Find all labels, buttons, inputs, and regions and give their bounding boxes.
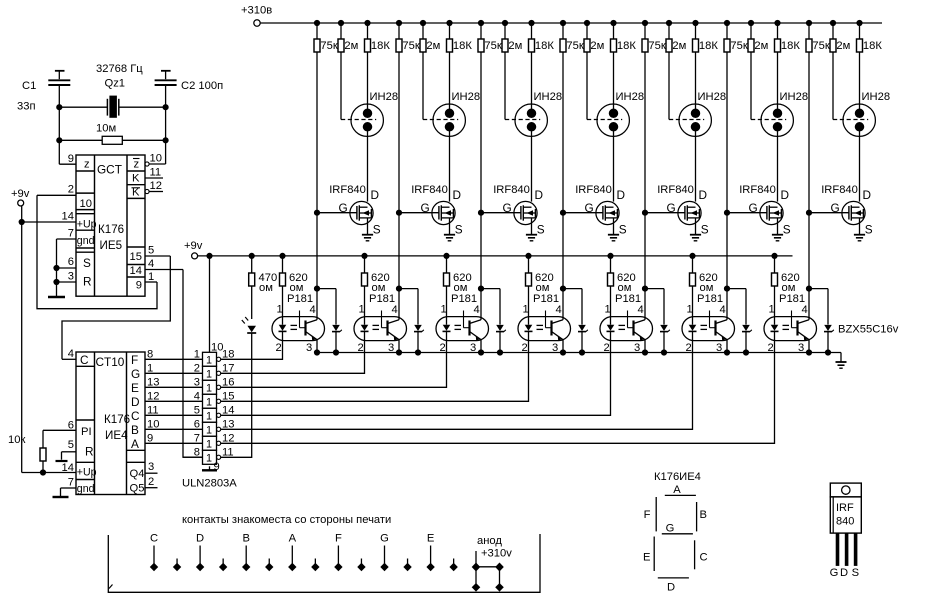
junction 18К 2 — [447, 20, 452, 25]
U3 output pin 11 bubble — [217, 455, 221, 459]
wire gate node to opto pin 4 3 — [480, 213, 482, 289]
junction gate branch 6 — [724, 286, 729, 291]
wire MOSFET source to ground 1 — [367, 218, 369, 235]
svg-text:12: 12 — [147, 390, 159, 402]
wire gate node to opto pin 4 7 — [808, 213, 810, 289]
protection diode branch 5 — [645, 288, 664, 290]
protection diode branch 3 — [481, 288, 500, 290]
resistor 2м #1 — [340, 23, 342, 39]
svg-text:3: 3 — [148, 461, 154, 473]
svg-text:К176: К176 — [98, 223, 124, 236]
svg-text:D: D — [863, 188, 872, 202]
U3 output pin 12 bubble — [217, 441, 221, 445]
U1 cell z-bar pin 10 inverted — [127, 170, 145, 172]
svg-text:12: 12 — [150, 180, 162, 192]
svg-text:2м: 2м — [672, 40, 686, 52]
connector contact 2 — [176, 559, 178, 565]
svg-text:2: 2 — [148, 476, 154, 488]
svg-text:G: G — [830, 567, 839, 579]
svg-text:P181: P181 — [287, 293, 313, 305]
resistor 620 ом #6 — [692, 256, 694, 273]
small ground at U2 R pin — [61, 452, 63, 460]
svg-text:5: 5 — [148, 245, 154, 257]
IC U2 K176ИЕ4 counter body — [76, 352, 145, 495]
junction 18К 5 — [693, 20, 698, 25]
svg-text:11: 11 — [222, 446, 234, 458]
capacitor C1 — [55, 70, 65, 72]
svg-text:S: S — [865, 223, 873, 237]
svg-text:8: 8 — [147, 348, 153, 360]
svg-text:IRF840: IRF840 — [411, 184, 448, 196]
resistor 75к #7 — [808, 23, 810, 39]
U1 cell gnd — [76, 247, 95, 249]
U3 buffer cell 4 — [203, 394, 217, 408]
ground MOSFET 3 — [526, 234, 537, 236]
svg-text:4: 4 — [638, 304, 644, 316]
svg-text:4: 4 — [68, 348, 74, 360]
junction 18К 6 — [775, 20, 780, 25]
svg-text:C1: C1 — [22, 80, 36, 92]
wire 18К to tube 4 anode — [613, 52, 615, 105]
svg-text:IRF840: IRF840 — [493, 184, 530, 196]
svg-text:P181: P181 — [533, 293, 559, 305]
IRF840 package leg S — [854, 533, 858, 566]
svg-text:6: 6 — [68, 256, 74, 268]
resistor 75к #4 — [562, 23, 564, 39]
svg-text:gnd: gnd — [77, 483, 95, 495]
svg-text:P181: P181 — [615, 293, 641, 305]
svg-text:13: 13 — [147, 376, 159, 388]
resistor 75к #6 — [726, 23, 728, 39]
svg-text:B: B — [242, 533, 249, 545]
protection diode branch 6 — [727, 288, 746, 290]
svg-text:ом: ом — [259, 282, 273, 294]
U3 buffer cell 6 — [203, 422, 217, 436]
optocoupler 1 pin 4 wire — [316, 289, 318, 320]
junction node 10м right — [163, 138, 168, 143]
optocoupler 6 pin 4 wire — [726, 289, 728, 320]
wire 18К to tube 6 anode — [777, 52, 779, 105]
U3 buffer cell 8 — [203, 450, 217, 464]
svg-text:A: A — [289, 533, 297, 545]
junction 75к 5 — [642, 20, 647, 25]
svg-text:G: G — [666, 523, 675, 535]
svg-text:ИЕ4: ИЕ4 — [105, 429, 128, 442]
wire MOSFET source to ground 4 — [613, 218, 615, 235]
resistor 620 ом #4 — [528, 256, 530, 273]
U3 output pin 13 bubble — [217, 427, 221, 431]
svg-text:P181: P181 — [779, 293, 805, 305]
svg-text:анод: анод — [477, 535, 502, 547]
U3 input 8 wire — [183, 456, 203, 458]
optocoupler 2 pin 3 wire — [398, 340, 400, 353]
wire to pin 9 — [58, 140, 60, 164]
junction gate node 6 — [724, 210, 729, 215]
svg-text:4: 4 — [720, 304, 726, 316]
junction 75к 1 — [314, 20, 319, 25]
resistor 2м #2 — [422, 23, 424, 39]
svg-text:4: 4 — [310, 304, 316, 316]
svg-text:2м: 2м — [754, 40, 768, 52]
IC U1 K176ИЕ5 counter body — [76, 155, 145, 296]
svg-text:+Up: +Up — [77, 467, 97, 479]
svg-text:4: 4 — [148, 258, 154, 270]
U3 buffer cell 3 — [203, 380, 217, 394]
svg-text:14: 14 — [222, 404, 234, 416]
svg-text:1: 1 — [687, 304, 693, 316]
svg-text:P181: P181 — [369, 293, 395, 305]
junction 75к 6 — [724, 20, 729, 25]
svg-text:1: 1 — [277, 304, 283, 316]
wire gate node to opto pin 4 2 — [398, 213, 400, 289]
svg-text:BZX55C16v: BZX55C16v — [838, 324, 899, 336]
optocoupler 7 pin 4 wire — [808, 289, 810, 320]
resistor 620 ом #2 — [364, 256, 366, 273]
+9v rail — [197, 255, 792, 257]
svg-text:75к: 75к — [402, 40, 419, 52]
U3 output pin 15 bubble — [217, 399, 221, 403]
U1 cell +Up — [76, 213, 95, 215]
wire ULN output 15 to optocoupler 4 pin 2 — [221, 341, 529, 402]
wire 2м to tube 5 grid — [668, 52, 670, 120]
svg-text:18К: 18К — [863, 40, 882, 52]
svg-text:R: R — [83, 275, 92, 289]
svg-text:+9v: +9v — [11, 188, 30, 200]
junction 10k to +Up — [40, 470, 45, 475]
svg-text:1: 1 — [206, 425, 212, 437]
U3 buffer cell 5 — [203, 408, 217, 422]
U2 cell Q4 Q5 — [127, 461, 146, 463]
svg-text:9: 9 — [147, 432, 153, 444]
svg-text:Qz1: Qz1 — [105, 78, 126, 90]
junction 18К 7 — [857, 20, 862, 25]
svg-text:4: 4 — [556, 304, 562, 316]
svg-text:S: S — [783, 223, 791, 237]
U1 cell K-bar pin 12 inverted — [127, 197, 145, 199]
svg-text:1: 1 — [206, 439, 212, 451]
wire MOSFET source to ground 6 — [777, 218, 779, 235]
connector contact 6 — [268, 559, 270, 565]
junction gate branch 4 — [560, 286, 565, 291]
svg-text:ИН28: ИН28 — [862, 91, 891, 103]
svg-text:F: F — [335, 533, 342, 545]
svg-text:7: 7 — [68, 228, 74, 240]
junction gate node 5 — [642, 210, 647, 215]
svg-text:14: 14 — [62, 211, 74, 223]
svg-text:2м: 2м — [344, 40, 358, 52]
wire ULN output 14 to optocoupler 5 pin 2 — [221, 341, 611, 416]
IRF840 package leg D — [845, 533, 849, 566]
svg-text:18: 18 — [222, 348, 234, 360]
wire U1 pin2 to pin1 feedback — [37, 195, 157, 308]
resistor 18К #2 — [449, 23, 451, 39]
svg-text:IRF840: IRF840 — [657, 184, 694, 196]
junction 620 ом resistor 3 — [444, 253, 449, 258]
svg-text:z: z — [84, 159, 90, 171]
junction node crystal left — [57, 105, 62, 110]
junction gate branch 1 — [314, 286, 319, 291]
junction 620 ом resistor 1 — [280, 253, 285, 258]
junction 18К 1 — [365, 20, 370, 25]
svg-text:1: 1 — [206, 411, 212, 423]
resistor 75к #2 — [398, 23, 400, 39]
svg-text:S: S — [619, 223, 627, 237]
svg-text:18К: 18К — [535, 40, 554, 52]
svg-text:B: B — [700, 509, 707, 521]
wire U1 pin5 to U2 C clock input — [62, 256, 170, 359]
svg-text:10: 10 — [80, 198, 92, 210]
resistor 18К #5 — [695, 23, 697, 39]
resistor 75к #1 — [316, 23, 318, 39]
svg-text:D: D — [699, 188, 708, 202]
protection diode branch 2 — [399, 288, 418, 290]
junction gate node 7 — [806, 210, 811, 215]
U2 cell PI R — [76, 419, 95, 421]
svg-text:D: D — [781, 188, 790, 202]
svg-text:5: 5 — [68, 439, 74, 451]
capacitor C2 — [161, 70, 171, 72]
resistor 75к #5 — [644, 23, 646, 39]
svg-text:+310v: +310v — [481, 548, 512, 560]
junction 75к 3 — [478, 20, 483, 25]
svg-text:S: S — [373, 223, 381, 237]
svg-text:A: A — [131, 437, 139, 451]
resistor 620 ом #5 — [610, 256, 612, 273]
svg-text:1: 1 — [206, 453, 212, 465]
svg-text:E: E — [427, 533, 434, 545]
junction 18К 3 — [529, 20, 534, 25]
U3 output pin 14 bubble — [217, 413, 221, 417]
svg-text:Q5: Q5 — [130, 483, 145, 495]
LED indicator — [245, 317, 248, 321]
ground for emitter rail — [840, 353, 842, 363]
svg-text:К176: К176 — [104, 413, 130, 426]
junction 620 ом resistor 6 — [690, 253, 695, 258]
svg-text:z: z — [134, 159, 140, 171]
optocoupler 1 pin 3 wire — [316, 340, 318, 353]
svg-text:6: 6 — [194, 418, 200, 430]
protection diode branch 7 — [809, 288, 828, 290]
svg-text:A: A — [673, 484, 681, 496]
ground for U2 gnd pin — [60, 488, 62, 497]
wire ULN output 17 to optocoupler 2 pin 2 — [221, 341, 365, 374]
svg-text:C: C — [131, 409, 140, 423]
svg-text:D: D — [667, 582, 675, 594]
ground for U1 S R pins — [56, 239, 58, 297]
svg-text:2: 2 — [194, 362, 200, 374]
junction 75к 4 — [560, 20, 565, 25]
junction 2м 6 — [748, 20, 753, 25]
ground MOSFET 6 — [772, 234, 783, 236]
ground MOSFET 2 — [444, 234, 455, 236]
svg-text:1: 1 — [359, 304, 365, 316]
junction 2м 5 — [666, 20, 671, 25]
wire MOSFET source to ground 7 — [859, 218, 861, 235]
svg-text:C2 100п: C2 100п — [181, 80, 223, 92]
junction node 10м left — [57, 138, 62, 143]
resistor 18К #3 — [531, 23, 533, 39]
wire 2м to tube 4 grid — [586, 52, 588, 120]
svg-text:+9v: +9v — [184, 240, 203, 252]
U3 pin 10 wire to +9v rail — [209, 256, 211, 352]
junction 2м 7 — [830, 20, 835, 25]
svg-text:D: D — [131, 395, 140, 409]
connector contact 8 — [314, 559, 316, 565]
U1 cell 15 — [127, 246, 145, 248]
svg-text:4: 4 — [194, 390, 200, 402]
junction ULN pin10 — [207, 253, 212, 258]
wire 2м to tube 3 grid — [504, 52, 506, 120]
svg-text:F: F — [131, 353, 138, 367]
svg-text:F: F — [644, 509, 651, 521]
resistor 18К #7 — [859, 23, 861, 39]
wire to pin 10 — [165, 140, 167, 164]
svg-text:18К: 18К — [617, 40, 636, 52]
wire 18К to tube 1 anode — [367, 52, 369, 105]
U1 cell K pin 11 — [127, 184, 145, 186]
svg-text:ИН28: ИН28 — [698, 91, 727, 103]
wire ULN output 16 to optocoupler 3 pin 2 — [221, 341, 447, 388]
svg-text:10м: 10м — [96, 123, 116, 135]
wire MOSFET source to ground 3 — [531, 218, 533, 235]
wire 75к to gate node 2 — [398, 52, 400, 213]
svg-text:ИЕ5: ИЕ5 — [100, 239, 123, 252]
svg-text:1: 1 — [769, 304, 775, 316]
U1 cell 9 — [127, 276, 145, 278]
svg-text:9: 9 — [68, 153, 74, 165]
svg-text:4: 4 — [802, 304, 808, 316]
wire — [58, 107, 60, 140]
svg-text:1: 1 — [206, 383, 212, 395]
U1 cell S R — [76, 251, 95, 253]
svg-text:К176ИЕ4: К176ИЕ4 — [654, 471, 701, 483]
svg-text:IRF840: IRF840 — [739, 184, 776, 196]
junction gate branch 3 — [478, 286, 483, 291]
U3 buffer cell 1 — [203, 352, 217, 366]
wire 75к to gate node 1 — [316, 52, 318, 213]
wire 2м to tube 6 grid — [750, 52, 752, 120]
wire 18К to tube 3 anode — [531, 52, 533, 105]
junction 2м 1 — [338, 20, 343, 25]
connector contact 4 — [222, 559, 224, 565]
U1 cell z — [76, 170, 95, 172]
svg-text:PI: PI — [81, 426, 92, 438]
resistor 620 ом #7 — [774, 256, 776, 273]
optocoupler 5 pin 3 wire — [644, 340, 646, 353]
U3 output pin 18 bubble — [217, 357, 221, 361]
resistor 470 ом — [249, 253, 254, 258]
svg-text:2м: 2м — [590, 40, 604, 52]
ground MOSFET 5 — [690, 234, 701, 236]
svg-text:D: D — [617, 188, 626, 202]
svg-text:S: S — [455, 223, 463, 237]
svg-text:11: 11 — [150, 167, 162, 179]
protection diode branch 1 — [317, 288, 336, 290]
svg-text:CT10: CT10 — [96, 355, 125, 369]
junction 2м 3 — [502, 20, 507, 25]
U3 output pin 17 bubble — [217, 371, 221, 375]
wire 2м to tube 7 grid — [832, 52, 834, 120]
U2 cell +Up — [76, 461, 95, 463]
svg-text:S: S — [701, 223, 709, 237]
svg-text:контакты знакоместа со стороны: контакты знакоместа со стороны печати — [182, 514, 391, 526]
svg-text:1: 1 — [523, 304, 529, 316]
svg-text:9: 9 — [136, 280, 142, 292]
svg-text:32768 Гц: 32768 Гц — [96, 63, 143, 75]
U3 output pin 16 bubble — [217, 385, 221, 389]
junction 18К 4 — [611, 20, 616, 25]
junction +9v to U1 +Up — [19, 219, 24, 224]
wire ULN output 18 to optocoupler 1 pin 2 — [221, 341, 283, 360]
wire MOSFET source to ground 2 — [449, 218, 451, 235]
svg-text:14: 14 — [130, 265, 142, 277]
wire +9v down left side — [21, 206, 23, 473]
svg-text:ИН28: ИН28 — [452, 91, 481, 103]
svg-text:4: 4 — [474, 304, 480, 316]
svg-text:1: 1 — [206, 397, 212, 409]
wire gate node to opto pin 4 5 — [644, 213, 646, 289]
svg-text:15: 15 — [222, 390, 234, 402]
wire 2м to tube 1 grid — [340, 52, 342, 120]
junction gate node 2 — [396, 210, 401, 215]
svg-text:9: 9 — [214, 461, 220, 473]
junction 620 ом resistor 4 — [526, 253, 531, 258]
wire 75к to gate node 6 — [726, 52, 728, 213]
resistor 18К #4 — [613, 23, 615, 39]
junction 620 ом resistor 5 — [608, 253, 613, 258]
svg-text:10: 10 — [211, 341, 223, 353]
+310в rail — [260, 22, 882, 24]
svg-text:16: 16 — [222, 376, 234, 388]
U1 cell 10 — [76, 192, 95, 194]
svg-text:2м: 2м — [426, 40, 440, 52]
wire 75к to gate node 3 — [480, 52, 482, 213]
optocoupler 3 pin 4 wire — [480, 289, 482, 320]
svg-text:18К: 18К — [699, 40, 718, 52]
svg-text:18К: 18К — [453, 40, 472, 52]
ground MOSFET 1 — [362, 234, 373, 236]
svg-text:D: D — [371, 188, 380, 202]
svg-text:3: 3 — [68, 271, 74, 283]
connector contact 14 — [453, 559, 455, 565]
svg-text:2: 2 — [68, 184, 74, 196]
svg-text:75к: 75к — [484, 40, 501, 52]
svg-text:5: 5 — [194, 404, 200, 416]
protection diode branch 4 — [563, 288, 582, 290]
junction 620 ом resistor 7 — [772, 253, 777, 258]
wire 75к to gate node 4 — [562, 52, 564, 213]
svg-text:IRF840: IRF840 — [329, 184, 366, 196]
svg-text:gnd: gnd — [77, 235, 95, 247]
junction 75к 7 — [806, 20, 811, 25]
svg-text:7: 7 — [194, 432, 200, 444]
junction 2м 2 — [420, 20, 425, 25]
svg-text:75к: 75к — [812, 40, 829, 52]
optocoupler 5 pin 4 wire — [644, 289, 646, 320]
svg-text:ИН28: ИН28 — [370, 91, 399, 103]
junction gate branch 5 — [642, 286, 647, 291]
IRF840 package drawing — [830, 483, 861, 497]
svg-text:ИН28: ИН28 — [780, 91, 809, 103]
wire ULN output 12 to optocoupler 7 pin 2 — [221, 341, 775, 444]
svg-text:S: S — [83, 256, 91, 270]
svg-text:1: 1 — [605, 304, 611, 316]
wire 18К to tube 2 anode — [449, 52, 451, 105]
svg-text:75к: 75к — [730, 40, 747, 52]
svg-text:4: 4 — [392, 304, 398, 316]
svg-text:G: G — [380, 533, 389, 545]
svg-text:P181: P181 — [697, 293, 723, 305]
